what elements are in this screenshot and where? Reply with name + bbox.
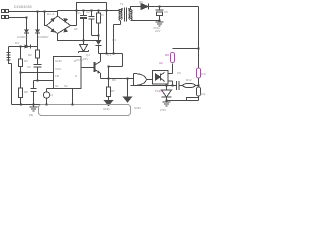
svg-text:VCC: VCC (55, 67, 62, 71)
svg-text:2CW: 2CW (76, 58, 83, 62)
svg-text:R8: R8 (24, 90, 28, 94)
svg-text:R3: R3 (24, 59, 28, 63)
svg-text:TL431: TL431 (155, 89, 164, 93)
svg-text:D1~4: D1~4 (47, 12, 55, 16)
svg-text:S2: S2 (64, 84, 68, 88)
svg-text:R6: R6 (112, 78, 116, 82)
svg-text:15V: 15V (83, 57, 88, 61)
svg-text:T1: T1 (120, 2, 124, 6)
svg-text:R7: R7 (111, 89, 115, 93)
svg-text:1N4007: 1N4007 (17, 35, 28, 39)
svg-text:R1: R1 (100, 13, 104, 17)
svg-text:2.5V: 2.5V (160, 108, 166, 112)
svg-text:GND: GND (134, 106, 142, 110)
svg-text:FB: FB (55, 74, 59, 78)
svg-text:C5: C5 (164, 10, 168, 14)
svg-text:PE: PE (29, 113, 33, 117)
svg-text:R9: R9 (165, 53, 169, 57)
svg-text:D3: D3 (15, 41, 19, 45)
svg-text:C2: C2 (86, 10, 90, 14)
svg-text:10V: 10V (155, 29, 160, 33)
svg-text:1N4007: 1N4007 (38, 35, 49, 39)
svg-text:0.1: 0.1 (107, 53, 112, 57)
svg-text:S1: S1 (55, 84, 59, 88)
svg-text:C3: C3 (112, 38, 116, 42)
svg-text:C6: C6 (177, 71, 181, 75)
svg-text:C4: C4 (49, 93, 53, 97)
svg-text:GND: GND (103, 107, 111, 111)
svg-text:Q1: Q1 (86, 53, 90, 57)
svg-text:D5: D5 (139, 0, 143, 4)
svg-text:R11: R11 (200, 92, 206, 96)
svg-text:HF: HF (74, 27, 78, 31)
svg-text:C1: C1 (77, 11, 81, 15)
svg-text:R12: R12 (186, 78, 192, 82)
svg-text:R2: R2 (28, 53, 32, 57)
svg-text:GND: GND (55, 59, 63, 63)
svg-text:DZ#B4085: DZ#B4085 (14, 5, 32, 9)
svg-text:C2: C2 (27, 65, 31, 69)
svg-text:U2: U2 (159, 61, 163, 65)
